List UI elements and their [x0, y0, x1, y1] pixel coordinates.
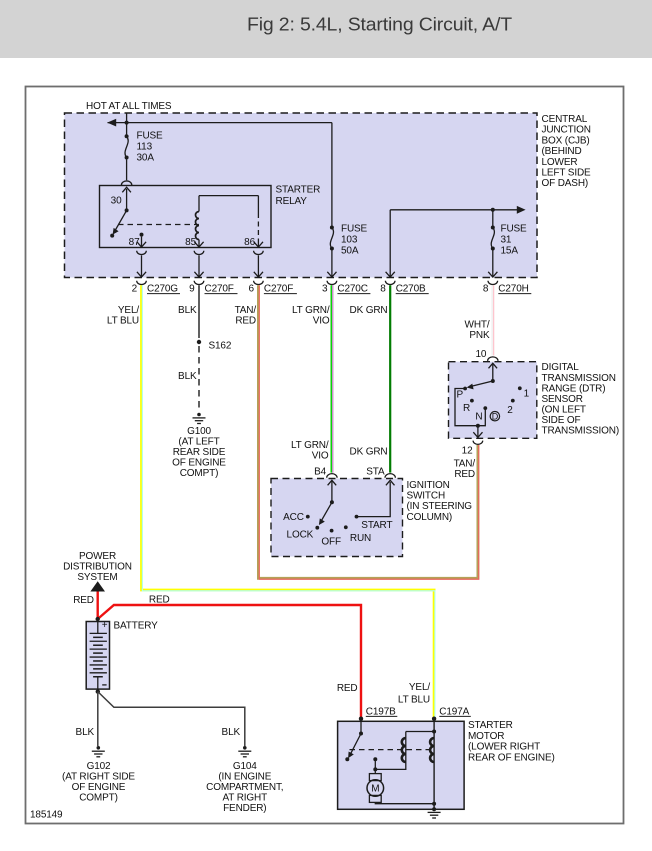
- svg-text:N: N: [475, 412, 482, 423]
- wire: DTR P and N contacts to pin 12: [455, 389, 485, 426]
- connector label 9 C270F: [189, 284, 237, 295]
- svg-text:RED: RED: [149, 595, 170, 606]
- svg-text:2: 2: [132, 284, 138, 295]
- svg-text:SYSTEM: SYSTEM: [77, 572, 117, 583]
- svg-text:REAR SIDE: REAR SIDE: [173, 447, 226, 458]
- junction node at battery positive: [96, 617, 100, 621]
- svg-text:C270B: C270B: [396, 284, 426, 295]
- ignition switch B4 connector cup: [327, 474, 337, 478]
- wire LT GRN/VIO: C270C to ignition switch B4: [330, 285, 334, 472]
- relay switch lever: [110, 208, 128, 237]
- svg-text:RANGE (DTR): RANGE (DTR): [542, 383, 606, 394]
- relay pin 86 exit arrow: [254, 240, 263, 247]
- svg-text:12: 12: [462, 446, 473, 457]
- label: DIGITAL TRANSMISSION RANGE (DTR) SENSOR: [542, 362, 620, 436]
- svg-text:8: 8: [380, 284, 386, 295]
- svg-text:P: P: [457, 389, 464, 400]
- starter contact node: [373, 757, 377, 761]
- svg-text:BATTERY: BATTERY: [114, 621, 159, 632]
- svg-text:OF ENGINE: OF ENGINE: [172, 458, 226, 469]
- svg-text:LT GRN/: LT GRN/: [291, 440, 329, 451]
- svg-text:TRANSMISSION: TRANSMISSION: [542, 373, 616, 384]
- wire label TAN/RED: [235, 305, 257, 327]
- svg-text:RED: RED: [337, 683, 358, 694]
- wire BLK: battery to G104: [98, 692, 245, 746]
- wire label BLK: [222, 727, 241, 738]
- label: HOT AT ALL TIMES: [86, 101, 172, 112]
- title bar: [0, 0, 652, 58]
- svg-text:LT GRN/: LT GRN/: [292, 305, 330, 316]
- DTR contact 1: [518, 386, 530, 399]
- svg-text:RED: RED: [73, 595, 94, 606]
- svg-text:STA: STA: [366, 467, 385, 478]
- svg-text:POWER: POWER: [79, 551, 116, 562]
- node on case: [432, 807, 436, 811]
- svg-text:BLK: BLK: [178, 371, 197, 382]
- wire: bus to fuse 103: [331, 123, 333, 227]
- connector C270C cup: [327, 281, 337, 285]
- fuse F113 30A: [125, 134, 129, 159]
- fuse F103 50A: [330, 226, 334, 251]
- ignition switch STA connector cup: [385, 474, 395, 478]
- relay pin 30 connector cup: [121, 181, 131, 185]
- svg-text:COMPT): COMPT): [79, 792, 118, 803]
- svg-text:113: 113: [137, 142, 153, 153]
- pin number 10: [475, 349, 486, 360]
- connector label 8 C270H: [483, 284, 531, 295]
- svg-text:(AT LEFT: (AT LEFT: [178, 437, 219, 448]
- svg-text:SWITCH: SWITCH: [407, 491, 446, 502]
- arrow to hot feed (left): [107, 119, 116, 127]
- ground at starter case: [428, 812, 441, 818]
- svg-text:PNK: PNK: [469, 330, 490, 341]
- arrow feed continues (right): [517, 206, 526, 214]
- svg-text:(AT RIGHT SIDE: (AT RIGHT SIDE: [62, 771, 135, 782]
- svg-text:STARTER: STARTER: [276, 185, 321, 196]
- connector label 6 C270F: [248, 284, 296, 295]
- label G102 (AT RIGHT SIDE OF ENGINE COMPT): [62, 761, 135, 804]
- svg-text:IGNITION: IGNITION: [407, 480, 450, 491]
- wire label LT GRN/VIO: [292, 305, 330, 327]
- svg-text:FUSE: FUSE: [341, 224, 368, 235]
- wire label YEL/LT BLU: [398, 682, 430, 706]
- svg-text:B4: B4: [314, 467, 327, 478]
- svg-text:TAN/: TAN/: [235, 305, 257, 316]
- svg-text:D: D: [492, 412, 499, 422]
- svg-text:VIO: VIO: [313, 316, 330, 327]
- svg-text:OFF: OFF: [321, 537, 341, 548]
- wire RED: battery to power distribution: [96, 592, 98, 620]
- connector C270F cup: [194, 281, 204, 285]
- svg-text:6: 6: [248, 284, 254, 295]
- connector C270B cup: [385, 281, 395, 285]
- svg-text:FUSE: FUSE: [137, 131, 164, 142]
- svg-text:C270H: C270H: [498, 284, 528, 295]
- starter solenoid linkage (dashed): [350, 749, 431, 751]
- ignition contact RUN: [344, 525, 371, 544]
- ignition switch box: [271, 479, 403, 557]
- svg-text:DIGITAL: DIGITAL: [542, 362, 580, 373]
- svg-text:SIDE OF: SIDE OF: [542, 415, 581, 426]
- wire: relay pin 87 to CJB edge: [137, 255, 146, 277]
- junction node at DTR pin 12: [476, 424, 480, 428]
- svg-text:MOTOR: MOTOR: [468, 731, 504, 742]
- wire label RED: [149, 595, 170, 606]
- splice node S162: [197, 340, 201, 344]
- wire label YEL/LT BLU: [107, 305, 139, 327]
- connector C270F2 cup: [254, 281, 264, 285]
- svg-text:LOWER: LOWER: [542, 157, 578, 168]
- svg-text:86: 86: [244, 237, 255, 248]
- DTR contact R: [463, 399, 474, 414]
- svg-text:RELAY: RELAY: [276, 196, 308, 207]
- wire RED: battery to starter C197B: [98, 605, 361, 718]
- svg-text:RED: RED: [235, 316, 256, 327]
- wire: C197A feed through starter: [433, 721, 435, 809]
- svg-text:2: 2: [507, 405, 513, 416]
- svg-text:START: START: [361, 520, 392, 531]
- connector break below relay pin 85: [194, 251, 204, 255]
- connector label C197B: [366, 706, 398, 717]
- wire label BLK: [76, 727, 95, 738]
- svg-text:C270G: C270G: [147, 284, 178, 295]
- fuse F31 15A: [491, 210, 495, 251]
- svg-text:S162: S162: [209, 341, 232, 352]
- label S162: [209, 341, 232, 352]
- node: C197B terminal: [359, 717, 363, 721]
- svg-text:OF ENGINE: OF ENGINE: [72, 782, 126, 793]
- svg-text:YEL/: YEL/: [409, 682, 430, 693]
- svg-text:C197B: C197B: [366, 706, 396, 717]
- junction node: [432, 730, 436, 734]
- svg-text:30A: 30A: [137, 153, 155, 164]
- svg-text:50A: 50A: [341, 246, 359, 257]
- junction node: [432, 802, 436, 806]
- connector label 2 C270G: [132, 284, 180, 295]
- ignition switch lever: [319, 500, 334, 525]
- wire: feed bus to fuse 31 and C270B: [386, 210, 517, 277]
- wire: relay pin 86 to CJB edge: [254, 255, 263, 277]
- svg-text:1: 1: [524, 389, 530, 400]
- relay contact 87: [140, 233, 144, 237]
- arrow to power distribution system: [90, 581, 105, 591]
- ignition B4 entry arrow: [328, 480, 337, 502]
- wire label RED: [73, 595, 94, 606]
- svg-text:103: 103: [341, 235, 358, 246]
- svg-text:REAR OF ENGINE): REAR OF ENGINE): [468, 752, 555, 763]
- connector C270G cup: [137, 281, 147, 285]
- svg-text:LT BLU: LT BLU: [107, 316, 139, 327]
- svg-text:AT RIGHT: AT RIGHT: [223, 792, 268, 803]
- relay pin 85 exit arrow: [194, 242, 203, 247]
- wire label RED: [337, 683, 358, 694]
- label: CENTRAL JUNCTION BOX (CJB): [542, 114, 592, 189]
- svg-text:G102: G102: [87, 761, 111, 772]
- digital transmission range DTR sensor box: [449, 362, 537, 439]
- value label: FUSE 113 30A: [137, 131, 164, 164]
- svg-text:TAN/: TAN/: [454, 459, 476, 470]
- svg-text:C270F: C270F: [264, 284, 293, 295]
- starter pull-in coil: [402, 738, 406, 762]
- wire: fuse 113 to relay pin 30: [126, 160, 128, 181]
- wire: junction to pull-in coil: [406, 732, 434, 739]
- svg-text:CENTRAL: CENTRAL: [542, 114, 588, 125]
- starter motor box: [338, 721, 465, 809]
- svg-text:C270F: C270F: [205, 284, 234, 295]
- svg-text:LT BLU: LT BLU: [398, 695, 430, 706]
- value label: FUSE 103 50A: [341, 224, 368, 257]
- svg-text:COLUMN): COLUMN): [407, 512, 453, 523]
- pin number 85: [185, 237, 196, 248]
- svg-text:(BEHIND: (BEHIND: [542, 146, 582, 157]
- pin number 12: [462, 446, 473, 457]
- relay mechanical linkage (dashed): [118, 224, 199, 226]
- connector label 3 C270C: [322, 284, 370, 295]
- svg-text:RUN: RUN: [350, 533, 371, 544]
- svg-text:185149: 185149: [30, 810, 63, 821]
- wire: motor to ground bus: [375, 802, 434, 803]
- svg-text:DISTRIBUTION: DISTRIBUTION: [63, 562, 132, 573]
- connector label 8 C270B: [380, 284, 428, 295]
- figure number 185149: [30, 810, 63, 821]
- wire: relay pin 85 to CJB edge: [194, 255, 203, 277]
- wire BLK: C270F to splice S162: [198, 285, 200, 338]
- junction node at fuse 31 tap: [491, 208, 495, 212]
- svg-text:BOX (CJB): BOX (CJB): [542, 135, 590, 146]
- svg-text:OF DASH): OF DASH): [542, 178, 589, 189]
- value label: FUSE 31 15A: [501, 224, 528, 257]
- label: IGNITION SWITCH (IN STEERING COLUMN): [407, 480, 473, 523]
- svg-text:BLK: BLK: [178, 305, 197, 316]
- svg-text:8: 8: [483, 284, 489, 295]
- svg-text:(IN STEERING: (IN STEERING: [407, 501, 473, 512]
- svg-text:C197A: C197A: [439, 706, 469, 717]
- wire WHT/PNK: C270H to DTR pin 10: [491, 285, 495, 355]
- pin number 30: [111, 196, 122, 207]
- svg-text:9: 9: [189, 284, 195, 295]
- wire label BLK: [178, 371, 197, 382]
- svg-text:TRANSMISSION): TRANSMISSION): [542, 426, 620, 437]
- svg-text:LEFT SIDE: LEFT SIDE: [542, 168, 592, 179]
- svg-text:BLK: BLK: [76, 727, 95, 738]
- ground G102: [92, 746, 105, 757]
- terminal label B4: [314, 467, 327, 478]
- svg-text:10: 10: [475, 349, 486, 360]
- DTR contact 2: [507, 399, 515, 416]
- svg-text:VIO: VIO: [312, 451, 329, 462]
- connector break below relay pin 87: [137, 251, 147, 255]
- svg-text:COMPT): COMPT): [180, 468, 219, 479]
- label: BATTERY: [114, 621, 159, 632]
- DTR pin 12 exit arrow: [473, 426, 482, 438]
- wire: fuse 103 to CJB edge: [327, 250, 336, 277]
- ignition contact ACC: [283, 512, 310, 523]
- relay coil: [196, 196, 199, 247]
- svg-text:BLK: BLK: [222, 727, 241, 738]
- junction node: [373, 767, 377, 771]
- wire: coil top to pin 86: [199, 196, 258, 240]
- wire BLK dashed: S162 to G100: [198, 346, 200, 412]
- svg-text:31: 31: [501, 235, 512, 246]
- ignition contact START: [355, 515, 393, 531]
- svg-text:+: +: [102, 620, 108, 631]
- svg-text:G104: G104: [233, 761, 257, 772]
- ignition contact LOCK: [287, 526, 320, 541]
- label: POWER DISTRIBUTION SYSTEM: [63, 551, 132, 583]
- svg-text:87: 87: [129, 237, 140, 248]
- svg-text:WHT/: WHT/: [465, 320, 490, 331]
- motor M1: [367, 774, 384, 803]
- DTR contact N: [475, 406, 487, 422]
- svg-text:DK GRN: DK GRN: [350, 447, 388, 458]
- svg-text:ACC: ACC: [283, 512, 304, 523]
- wire: START contact to STA arrow: [357, 480, 395, 516]
- svg-text:M: M: [371, 784, 379, 795]
- wire label BLK: [178, 305, 197, 316]
- svg-text:R: R: [463, 403, 470, 414]
- junction node at fuse 113 tap: [125, 121, 129, 125]
- svg-text:HOT AT ALL TIMES: HOT AT ALL TIMES: [86, 101, 172, 112]
- svg-text:FENDER): FENDER): [223, 803, 266, 814]
- battery: [86, 620, 109, 689]
- starter hold-in coil: [430, 738, 434, 762]
- wire: fuse 31 to CJB edge: [488, 250, 497, 277]
- label G104 (IN ENGINE COMPARTMENT, AT RIGHT FENDER): [206, 761, 283, 814]
- wire label DK GRN: [350, 305, 388, 316]
- svg-text:LOCK: LOCK: [287, 529, 314, 540]
- DTR pin 10 entry arrow: [489, 363, 498, 381]
- pin number 87: [129, 237, 140, 248]
- starter relay box: [100, 186, 272, 248]
- wire BLK: battery to G102: [97, 692, 99, 746]
- wire YEL/LT BLU: C270G to starter C197A: [142, 285, 435, 717]
- svg-text:Fig 2: 5.4L, Starting Circuit,: Fig 2: 5.4L, Starting Circuit, A/T: [247, 15, 512, 35]
- svg-text:G100: G100: [187, 426, 211, 437]
- wire label LT GRN/VIO: [291, 440, 329, 462]
- svg-text:COMPARTMENT,: COMPARTMENT,: [206, 782, 283, 793]
- connector label C197A: [439, 706, 471, 717]
- DTR pin 10 connector cup: [488, 357, 498, 361]
- DTR pin 12 connector cup: [473, 441, 483, 445]
- wire: B+ feed, horizontal bus in CJB: [108, 113, 332, 135]
- label G100 (AT LEFT REAR SIDE OF ENGINE COMPT): [172, 426, 226, 479]
- svg-text:(LOWER RIGHT: (LOWER RIGHT: [468, 742, 540, 753]
- pin number 86: [244, 237, 255, 248]
- terminal label STA: [366, 467, 385, 478]
- svg-text:15A: 15A: [501, 246, 519, 257]
- wire TAN/RED: C270F to DTR pin 12: [258, 285, 478, 579]
- wire: pull-in coil to motor feed: [375, 762, 406, 769]
- svg-text:3: 3: [322, 284, 328, 295]
- wire label TAN/RED: [454, 459, 476, 481]
- node: C197A terminal: [432, 717, 436, 721]
- wire label WHT/PNK: [465, 320, 490, 342]
- DTR selector lever: [467, 379, 495, 389]
- connector C270H cup: [488, 281, 498, 285]
- svg-text:FUSE: FUSE: [501, 224, 528, 235]
- ground G104: [238, 746, 251, 757]
- label: STARTER RELAY: [276, 185, 321, 208]
- starter solenoid switch lever: [345, 721, 363, 761]
- svg-text:DK GRN: DK GRN: [350, 305, 388, 316]
- svg-text:JUNCTION: JUNCTION: [542, 125, 591, 136]
- label: STARTER MOTOR (LOWER RIGHT REAR OF ENGINE): [468, 720, 555, 764]
- wire DK GRN: C270B to ignition switch STA: [389, 285, 391, 472]
- wire label DK GRN: [350, 447, 388, 458]
- outer frame: [26, 87, 624, 824]
- DTR contact D (circled): [490, 412, 499, 422]
- svg-text:(IN ENGINE: (IN ENGINE: [218, 771, 271, 782]
- svg-text:SENSOR: SENSOR: [542, 394, 583, 405]
- relay pin 30 entry arrow: [122, 187, 131, 210]
- DTR contact P: [457, 387, 467, 401]
- svg-text:(ON LEFT: (ON LEFT: [542, 404, 586, 415]
- wire: contact to motor: [374, 759, 376, 773]
- relay pin 87 exit arrow: [137, 237, 146, 247]
- svg-text:STARTER: STARTER: [468, 720, 513, 731]
- svg-text:C270C: C270C: [337, 284, 367, 295]
- central junction box CJB: [65, 113, 538, 278]
- ground G100: [193, 413, 206, 424]
- junction node at battery negative: [96, 689, 100, 693]
- connector break below relay pin 86: [254, 251, 264, 255]
- svg-text:YEL/: YEL/: [118, 305, 139, 316]
- svg-text:30: 30: [111, 196, 122, 207]
- svg-text:RED: RED: [454, 469, 475, 480]
- ignition contact OFF: [321, 529, 341, 548]
- svg-text:85: 85: [185, 237, 196, 248]
